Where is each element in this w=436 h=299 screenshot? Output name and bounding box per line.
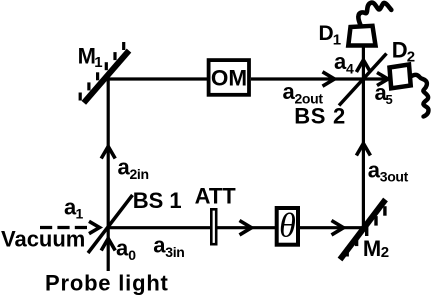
wire M2 to BS2 bbox=[362, 79, 365, 228]
svg-text:5: 5 bbox=[386, 92, 393, 107]
arrowhead before M2 bbox=[332, 221, 344, 235]
svg-text:1: 1 bbox=[76, 205, 84, 221]
svg-text:3in: 3in bbox=[165, 244, 184, 260]
arrowhead a4 bbox=[356, 60, 370, 72]
arrowhead a5 bbox=[377, 73, 388, 86]
svg-text:D: D bbox=[392, 38, 408, 63]
arrowhead a0 bbox=[101, 239, 115, 251]
svg-text:M: M bbox=[363, 236, 381, 261]
svg-text:ATT: ATT bbox=[195, 184, 237, 209]
wire vacuum dashed bbox=[40, 226, 87, 229]
svg-text:2: 2 bbox=[407, 48, 415, 65]
hatches M1 bbox=[80, 42, 124, 101]
svg-text:4: 4 bbox=[346, 60, 354, 76]
hatches M2 bbox=[347, 206, 385, 256]
mirror M2 bbox=[340, 200, 386, 260]
arrowhead a1 bbox=[89, 221, 100, 233]
svg-text:1: 1 bbox=[94, 54, 102, 71]
wire BS2 to D1 bbox=[362, 46, 365, 79]
wire squiggle D1 bbox=[358, 3, 391, 25]
attenuator ATT bbox=[211, 209, 216, 244]
wire squiggle D2 bbox=[411, 75, 429, 117]
wire OM to BS2 bbox=[251, 77, 363, 80]
detector D2 bbox=[390, 65, 411, 89]
svg-text:M: M bbox=[78, 44, 96, 69]
arrowhead after ATT bbox=[240, 221, 252, 235]
beamsplitter BS2 bbox=[339, 54, 387, 106]
wire M1 to OM bbox=[108, 77, 207, 80]
arrowhead a2in bbox=[101, 147, 115, 159]
svg-text:Vacuum: Vacuum bbox=[1, 227, 85, 252]
svg-text:BS 1: BS 1 bbox=[133, 188, 182, 213]
svg-text:2: 2 bbox=[381, 244, 389, 261]
svg-text:BS 2: BS 2 bbox=[294, 104, 346, 129]
wire probe input bbox=[107, 228, 110, 271]
svg-text:1: 1 bbox=[333, 32, 341, 49]
beamsplitter BS1 bbox=[88, 195, 133, 253]
svg-text:2in: 2in bbox=[130, 166, 149, 182]
svg-text:OM: OM bbox=[211, 66, 247, 91]
svg-text:θ: θ bbox=[279, 208, 296, 245]
svg-text:a: a bbox=[116, 236, 129, 261]
arrowhead a2out bbox=[323, 72, 335, 86]
box OM bbox=[209, 60, 249, 95]
wire BS2 to D2 bbox=[363, 77, 389, 80]
mirror M1 bbox=[84, 51, 129, 103]
detector D1 bbox=[348, 26, 375, 46]
wire BS1 to M1 bbox=[107, 79, 110, 228]
svg-text:Probe light: Probe light bbox=[45, 271, 169, 296]
svg-text:0: 0 bbox=[128, 247, 136, 263]
svg-text:D: D bbox=[319, 22, 334, 45]
wire BS1 to M2 (lower arm) bbox=[108, 226, 363, 229]
svg-text:3out: 3out bbox=[380, 169, 409, 185]
arrowhead a3out bbox=[356, 144, 370, 156]
phase shifter theta box bbox=[277, 208, 298, 245]
